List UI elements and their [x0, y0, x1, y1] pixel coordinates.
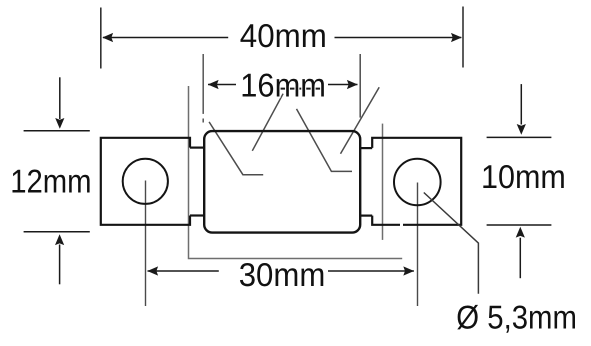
body leader diagonal B	[252, 94, 283, 151]
body leader diagonal D	[341, 87, 380, 153]
16mm arrow left	[208, 80, 219, 89]
fuse right tab hole	[394, 159, 441, 206]
12mm bottom tick	[24, 231, 90, 233]
30mm arrow left	[147, 266, 158, 275]
30mm arrow right	[403, 266, 414, 275]
40mm extension line right	[462, 7, 464, 68]
hole centerline right	[417, 183, 419, 307]
fuse neck left bottom	[190, 214, 204, 216]
fuse neck left top	[190, 147, 204, 149]
40mm dimension line	[103, 37, 228, 39]
leader vertical line right	[382, 124, 384, 240]
leader bracket polyline left	[189, 86, 403, 259]
10mm bottom tick	[487, 224, 552, 226]
10mm top arrow	[520, 84, 522, 124]
16mm extension line right	[359, 54, 361, 118]
svg-text:10mm: 10mm	[481, 158, 566, 195]
16mm dimension line fragment behind label	[277, 88, 322, 90]
fuse body	[204, 131, 360, 233]
svg-text:12mm: 12mm	[10, 162, 91, 199]
svg-text:30mm: 30mm	[239, 256, 326, 293]
fuse right tab outline	[372, 138, 461, 225]
hole diameter leader	[424, 193, 479, 294]
16mm dimension line	[208, 84, 236, 86]
body leader diagonal C	[297, 109, 353, 171]
svg-text:Ø 5,3mm: Ø 5,3mm	[456, 298, 577, 335]
fuse left tab outline	[101, 138, 190, 225]
svg-text:16mm: 16mm	[240, 66, 326, 103]
40mm extension line left	[100, 8, 102, 69]
40mm arrow left	[102, 33, 113, 42]
svg-text:40mm: 40mm	[240, 17, 327, 54]
12mm bottom arrow	[59, 245, 61, 285]
12mm top arrow	[59, 77, 61, 119]
10mm top tick	[487, 136, 552, 138]
40mm arrow right	[451, 33, 462, 42]
fuse left tab hole	[123, 159, 168, 204]
fuse neck right top	[360, 147, 373, 149]
fuse neck right bottom	[360, 215, 373, 217]
16mm arrow right	[347, 80, 358, 89]
30mm dimension line	[148, 270, 219, 272]
12mm top tick	[24, 130, 90, 132]
10mm bottom arrow	[519, 238, 521, 279]
body leader diagonal A	[209, 122, 263, 175]
16mm extension line left (dashed)	[202, 54, 204, 114]
hole centerline left	[145, 181, 147, 307]
gap artifact on right tab bottom edge	[400, 223, 403, 226]
